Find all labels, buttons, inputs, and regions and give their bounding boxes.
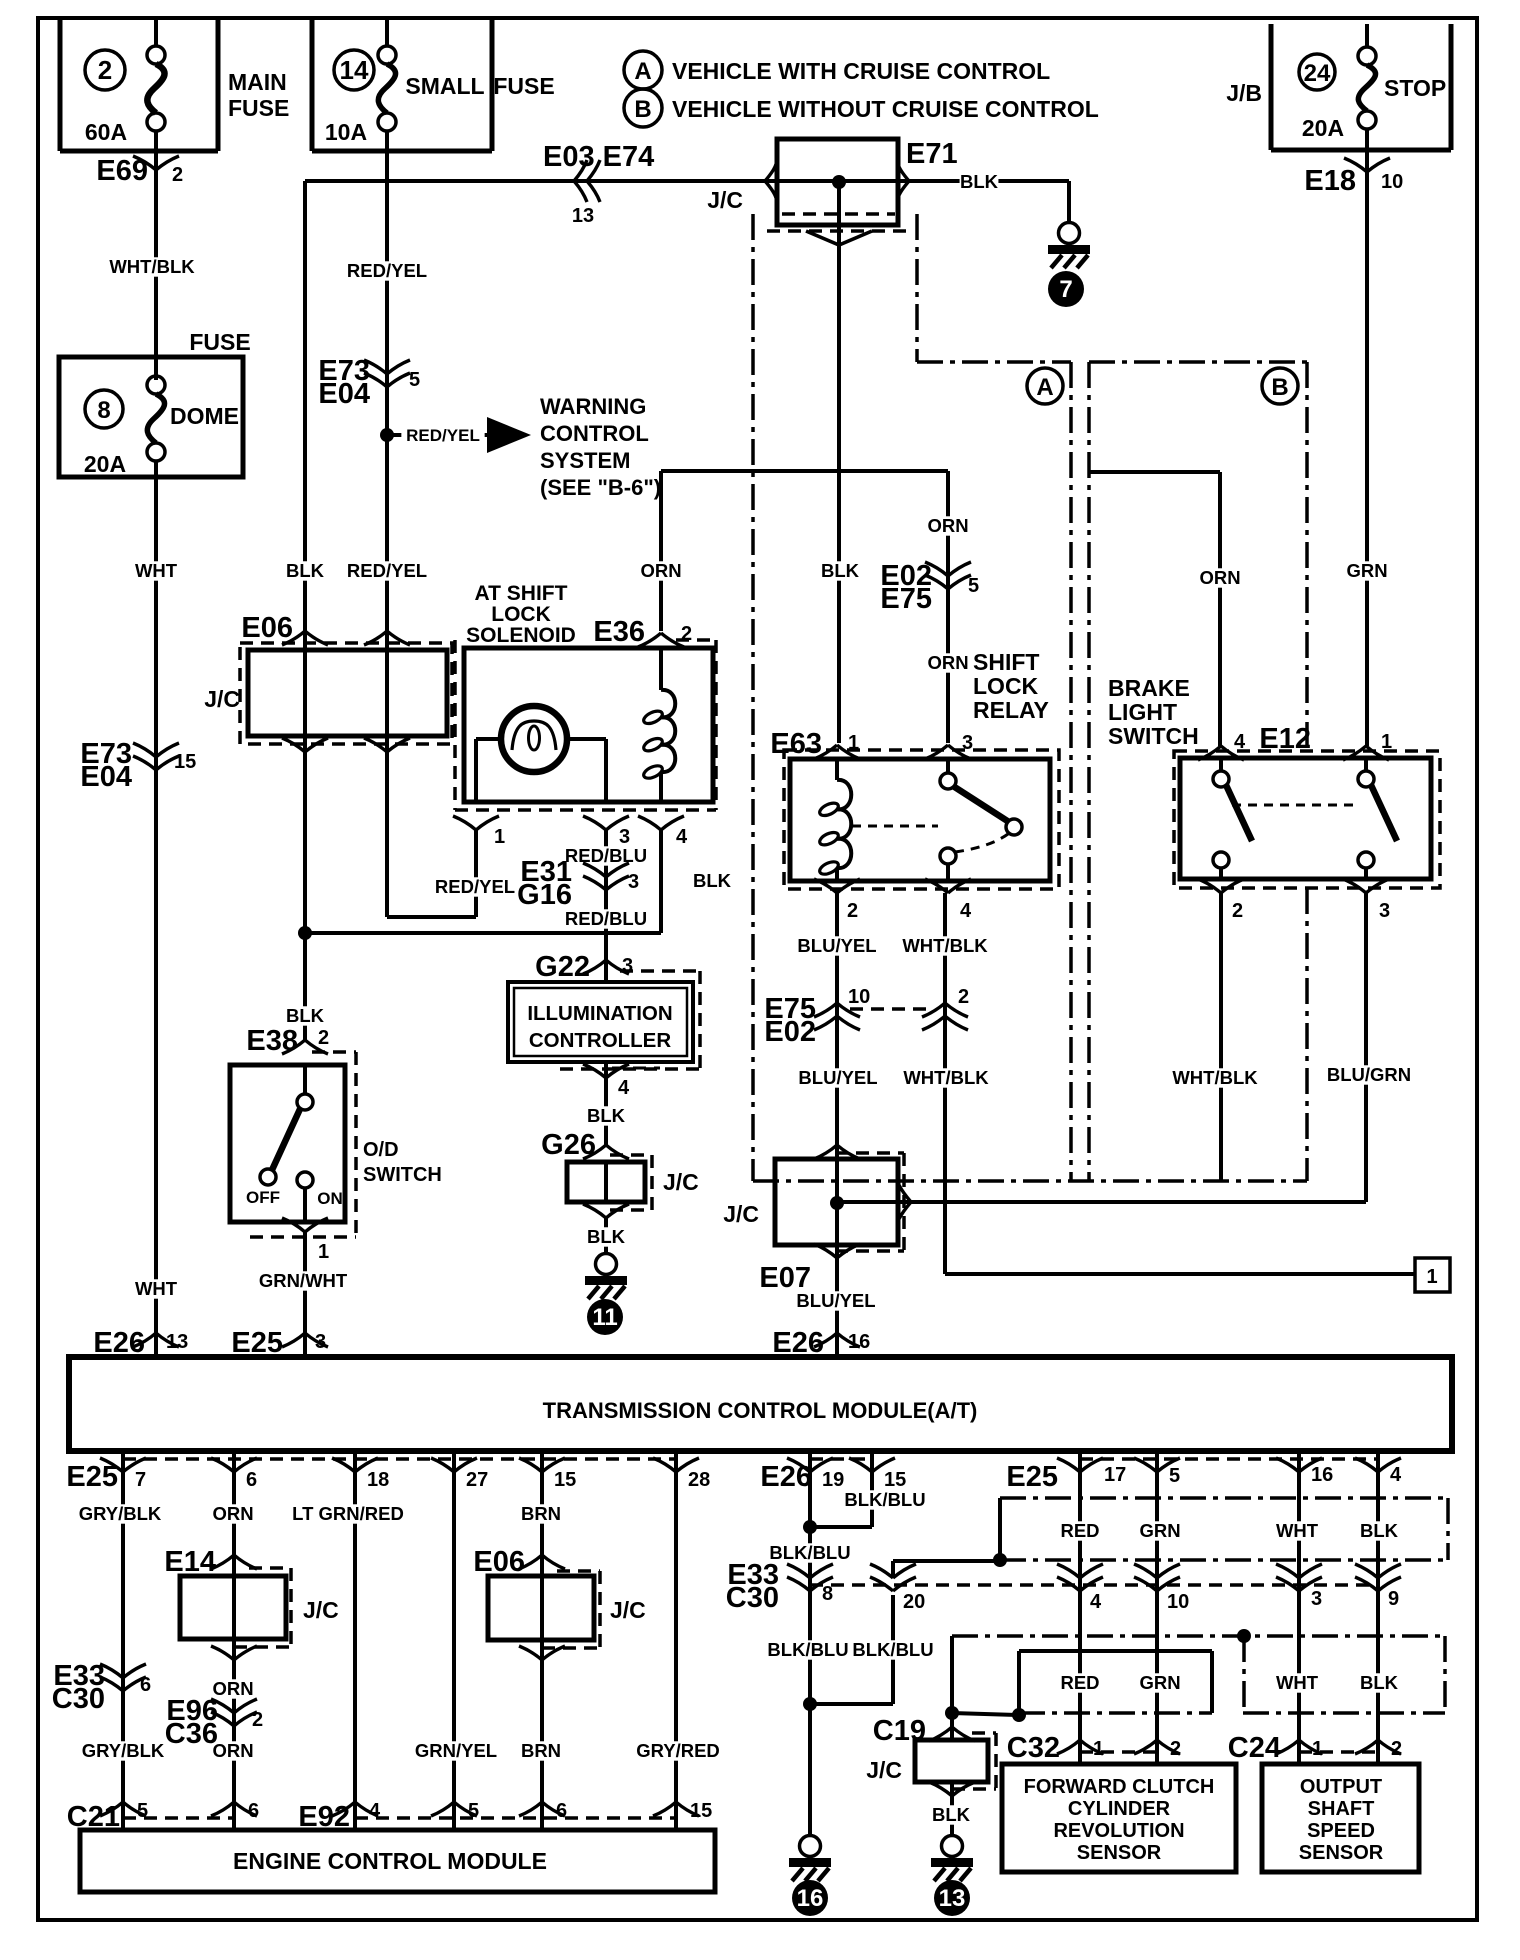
svg-text:1: 1 [1093,1738,1104,1760]
wire ORN TCM6 to ECM [212,1451,253,1830]
svg-text:2: 2 [958,986,969,1008]
svg-text:4: 4 [1090,1591,1102,1613]
connector E36 pin 4 [638,816,688,848]
shield dash-dot lower top [952,1634,1445,1638]
fuse element F24 [1358,24,1376,150]
shield dash-dot lower right [1443,1636,1447,1713]
connector E25 pin 6 [211,1458,257,1491]
svg-text:E04: E04 [318,378,370,410]
connector E33/C30 pin 10 [1134,1564,1189,1613]
connector E25 pin 4 [1355,1458,1402,1486]
shield dash-dot mid vertical [1242,1636,1246,1713]
svg-text:BLK: BLK [821,560,860,581]
ground G11 [585,1254,627,1336]
connector E36 pin 2 [593,616,692,648]
connector E02/E75 pin 5 [880,560,979,615]
brake light switch label [1108,675,1199,749]
connector E12 pin 1 [1259,723,1392,760]
connector E63 pin 3 [925,732,973,759]
svg-text:A: A [1036,374,1053,401]
connector C24 pin 1 [1276,1738,1323,1760]
terminal box 1 [1415,1258,1450,1292]
svg-text:ORN: ORN [927,652,968,673]
svg-text:E36: E36 [593,616,645,648]
connector E07 top pin [814,1145,860,1159]
junction E71 left pin [765,164,776,198]
transmission control module box [69,1357,1452,1451]
svg-text:VEHICLE WITH CRUISE CONTROL: VEHICLE WITH CRUISE CONTROL [672,58,1050,84]
svg-text:LOCK: LOCK [491,603,551,626]
connector E92 pin 4 [332,1800,381,1822]
connector E25 pin 27 [431,1458,488,1491]
connector E25 pin 17 [1057,1458,1126,1486]
svg-text:SWITCH: SWITCH [363,1164,442,1186]
svg-text:6: 6 [246,1469,257,1491]
svg-text:1: 1 [1312,1738,1323,1760]
connector E03 E74 pin 13 [543,141,654,227]
connector E96/C36 pin 2 [165,1695,263,1750]
output shaft speed sensor box [1262,1764,1419,1872]
connector E63 pin 4 [925,879,972,922]
connector E06 lower top pin [519,1555,565,1569]
svg-text:7: 7 [135,1469,146,1491]
svg-text:2: 2 [1391,1738,1402,1760]
svg-text:FUSE: FUSE [189,329,250,355]
wire GRN TCM5 to C32 [1139,1451,1180,1764]
svg-text:BLK: BLK [960,171,999,192]
svg-text:OUTPUT: OUTPUT [1300,1776,1382,1798]
svg-text:GRN: GRN [1139,1672,1180,1693]
node BLK/BLU junction dot [803,1520,817,1534]
svg-text:E14: E14 [164,1546,216,1578]
wire ORN solenoid pin2 from relay branch [640,471,681,631]
connector E31/G16 pin 3 [517,856,639,911]
svg-text:J/C: J/C [610,1597,646,1623]
node shield loop dot [1012,1708,1026,1722]
connector C19 top pin [873,1715,975,1747]
connector G26 top pin [583,1145,629,1159]
O/D switch label [363,1139,442,1186]
wire RED/YEL small fuse down [342,151,433,917]
svg-text:13: 13 [166,1331,188,1353]
svg-text:SENSOR: SENSOR [1077,1842,1162,1864]
svg-text:DOME: DOME [170,403,239,429]
wire GRN/YEL TCM27 to ECM [411,1451,502,1830]
wire RED/YEL to solenoid pin 1 [387,830,520,917]
svg-text:BLU/YEL: BLU/YEL [798,1067,877,1088]
node warning branch dot [380,428,394,442]
svg-text:1: 1 [1426,1266,1437,1288]
connector G22 pin 4 [583,1064,660,1099]
svg-text:10: 10 [1167,1591,1189,1613]
connector E33/C30 label right [726,1559,779,1614]
junction block J/C E06 lower [473,1546,645,1648]
connector E12 pin 4 [1198,731,1246,760]
connector E71 lower pin V [767,231,906,245]
svg-text:CONTROLLER: CONTROLLER [529,1029,672,1052]
svg-text:ON: ON [317,1189,343,1208]
svg-text:BRN: BRN [521,1740,561,1761]
connector E92 pin 6 [519,1800,567,1822]
svg-text:2: 2 [98,55,112,85]
svg-text:SWITCH: SWITCH [1108,723,1199,749]
svg-text:16: 16 [1311,1464,1333,1486]
relay K1 coil [818,759,851,881]
connector E25 dashed link [123,1457,676,1461]
warning system arrow [487,417,531,453]
connector E06 pin BLK bottom [282,738,328,752]
svg-text:14: 14 [340,55,369,85]
svg-text:WHT/BLK: WHT/BLK [902,935,988,956]
connector C21 pin 5 [100,1800,148,1822]
svg-text:C32: C32 [1007,1732,1060,1764]
svg-text:RED/YEL: RED/YEL [347,560,427,581]
svg-text:27: 27 [466,1469,488,1491]
svg-text:C30: C30 [726,1582,779,1614]
wire shield drain to pin 20 [893,1498,1000,1578]
svg-text:BRAKE: BRAKE [1108,675,1190,701]
svg-text:2: 2 [318,1027,329,1049]
svg-text:(SEE "B-6"): (SEE "B-6") [540,475,661,500]
wire BLK from E03/E74 junction [305,179,912,183]
svg-text:SPEED: SPEED [1307,1820,1375,1842]
wire WHT/BLK relay pin4 down [900,893,992,1274]
svg-text:TRANSMISSION CONTROL MODULE(A/: TRANSMISSION CONTROL MODULE(A/T) [543,1398,978,1423]
wire WHT TCM16 to C24 [1276,1451,1319,1764]
connector E25 pin 15 [519,1458,576,1491]
node shield drain dot [993,1553,1007,1567]
wire WHT DOME fuse to TCM [135,461,178,1357]
svg-text:ILLUMINATION: ILLUMINATION [527,1002,672,1025]
svg-text:15: 15 [174,751,196,773]
svg-text:J/C: J/C [723,1201,759,1227]
svg-text:GRY/RED: GRY/RED [636,1740,720,1761]
ground G7 [1048,223,1090,308]
section divider dash-dot left [751,214,755,1181]
shield dash-dot upper right [1446,1498,1450,1560]
connector E25 pin 28 [653,1458,710,1491]
wire BLK TCM4 to C24 [1360,1451,1399,1764]
wire BLK E03 junction down to O/D switch [286,181,325,1040]
junction block J/C E07 [723,1153,904,1294]
svg-text:ORN: ORN [927,515,968,536]
section divider dash-dot B top [1089,360,1307,364]
svg-text:GRN: GRN [1346,560,1387,581]
connector E92 pin 5 [431,1800,479,1822]
svg-text:8: 8 [822,1583,833,1605]
svg-text:WHT/BLK: WHT/BLK [1172,1067,1258,1088]
connector E25 right dashed link [1080,1457,1378,1461]
shield loop around RED GRN [1019,1651,1212,1715]
node shield lower dot [1237,1629,1251,1643]
wire C19 drain [952,1636,1019,1715]
connector E06 pin BLK top [282,631,328,645]
svg-text:SOLENOID: SOLENOID [466,624,576,647]
connector E25 pin 18 [332,1458,389,1491]
wire GRN stop fuse to pin 1 [1346,150,1387,746]
svg-text:BLK: BLK [693,870,732,891]
svg-text:BLU/GRN: BLU/GRN [1327,1064,1411,1085]
connector C32 dashed link [1080,1750,1157,1754]
svg-text:ORN: ORN [212,1678,253,1699]
svg-text:SHAFT: SHAFT [1308,1798,1375,1820]
connector E25 bottom right label [1006,1461,1058,1493]
connector E69 pin 2 [96,155,183,187]
svg-text:2: 2 [847,900,858,922]
wire BLK branch to solenoid pin 4 [305,830,661,933]
connector E38 pin 1 [282,1218,329,1263]
svg-text:LOCK: LOCK [973,673,1039,699]
solenoid label text [466,582,576,647]
connector E26 pin 15 [849,1458,906,1491]
svg-text:6: 6 [140,1674,151,1696]
svg-text:5: 5 [468,1800,479,1822]
wire RED/BLU pin3 to G22 [561,830,732,982]
svg-text:BLK: BLK [286,560,325,581]
switch box E12 [1174,751,1440,888]
connector C24 label [1228,1732,1281,1764]
svg-text:J/C: J/C [866,1757,902,1783]
svg-text:C24: C24 [1228,1732,1281,1764]
connector E33/C30 pin 8 [787,1564,833,1605]
connector E63 pin 1 [770,728,860,760]
connector C24 dashed link [1299,1750,1378,1754]
svg-text:5: 5 [409,369,420,391]
svg-text:15: 15 [690,1800,712,1822]
svg-text:17: 17 [1104,1464,1126,1486]
solenoid coil element [642,646,675,802]
shield dash-dot lower bottom right [1243,1711,1445,1715]
connector E73/E04 pin 15 [80,738,196,793]
relay box E63 [784,750,1059,889]
svg-text:11: 11 [592,1304,617,1331]
svg-text:WARNING: WARNING [540,394,646,419]
svg-text:J/C: J/C [303,1597,339,1623]
connector E38 pin 2 [246,1025,329,1057]
svg-text:BLU/YEL: BLU/YEL [796,1290,875,1311]
svg-text:4: 4 [369,1800,381,1822]
wire WHT/BLK to terminal 1 [945,1272,1415,1276]
junction block J/C C19 [866,1733,996,1789]
svg-text:B: B [634,96,651,123]
svg-text:CYLINDER: CYLINDER [1068,1798,1171,1820]
connector E12 pin 3 [1343,879,1390,922]
svg-text:WHT/BLK: WHT/BLK [109,256,195,277]
relay K1 contacts [852,759,1022,881]
svg-text:15: 15 [554,1469,576,1491]
fuse element F2 [147,20,165,151]
svg-text:E63: E63 [770,728,822,760]
svg-text:15: 15 [884,1469,906,1491]
illumination controller box [508,971,700,1069]
svg-text:BLK: BLK [932,1804,971,1825]
svg-text:G22: G22 [535,951,590,983]
wire WHT/BLK E69 to DOME fuse [107,151,198,380]
connector E63 pin 2 [814,879,860,922]
connector E06 pin RED/YEL bottom [364,738,410,752]
connector G26 bottom pin [583,1204,629,1218]
wire BLK/BLU pin20 jog [810,1595,938,1704]
svg-text:E25: E25 [1006,1461,1058,1493]
svg-text:FUSE: FUSE [493,73,554,99]
svg-text:2: 2 [1170,1738,1181,1760]
svg-text:C30: C30 [52,1683,105,1715]
svg-text:ENGINE CONTROL MODULE: ENGINE CONTROL MODULE [233,1848,547,1874]
brake switch contact left [1213,758,1252,879]
svg-text:3: 3 [1311,1588,1322,1610]
svg-text:WHT: WHT [135,560,178,581]
connector C32 pin 1 [1057,1738,1104,1760]
section divider dash-dot A right [1069,362,1073,1181]
warning control system text [540,394,661,500]
section divider dash-dot B left [1087,362,1091,1181]
connector E36 pin 1 [453,816,505,848]
forward clutch sensor box [1002,1764,1236,1872]
svg-text:4: 4 [1390,1464,1402,1486]
connector E75/E02 pins 10 2 [764,986,969,1048]
wire BLK/BLU E26-19 to ground 16 [763,1451,856,1835]
svg-text:C36: C36 [165,1718,218,1750]
brake switch contact right [1358,758,1397,879]
svg-text:4: 4 [960,900,972,922]
connector C32 label [1007,1732,1060,1764]
svg-text:20A: 20A [1302,115,1344,141]
svg-text:BLK: BLK [1360,1520,1399,1541]
section divider dash-dot A top [917,360,1071,364]
connector C21 dashed link [123,1816,234,1820]
svg-text:WHT/BLK: WHT/BLK [903,1067,989,1088]
connector E18 pin 10 [1304,158,1403,197]
svg-text:LIGHT: LIGHT [1108,699,1177,725]
svg-text:MAIN: MAIN [228,69,287,95]
connector E92 label [298,1801,350,1833]
connector E07 right pin [899,1185,911,1219]
engine control module box [80,1830,715,1892]
wire BLK illumination to G26 [587,1062,626,1145]
connector E33/C30 pin 4 [1057,1564,1103,1613]
svg-text:16: 16 [797,1885,824,1912]
svg-text:13: 13 [939,1885,966,1912]
svg-text:STOP: STOP [1384,75,1446,101]
svg-text:FORWARD CLUTCH: FORWARD CLUTCH [1024,1776,1215,1798]
section circle B [1262,368,1298,404]
wire WHT/BLK switch pin2 down [1170,893,1261,1181]
svg-text:RED/YEL: RED/YEL [406,426,480,445]
connector E33/C30 pin 6 [52,1660,151,1715]
wire E71 to ground 7 [1067,181,1071,222]
svg-text:BLK: BLK [587,1226,626,1247]
svg-text:19: 19 [822,1469,844,1491]
junction E71 right pin [898,164,909,198]
connector E26 pin 19 [787,1458,844,1491]
connector E14 top pin [211,1555,257,1569]
svg-text:BLK/BLU: BLK/BLU [844,1489,925,1510]
connector C24 pin 2 [1355,1738,1402,1760]
svg-text:2: 2 [172,164,183,186]
svg-text:WHT: WHT [1276,1520,1319,1541]
svg-text:ORN: ORN [212,1740,253,1761]
section divider dash-dot bottom [753,1179,1307,1183]
ground G16 [789,1836,831,1917]
fuse box 24 STOP 20A in J/B [1226,24,1451,150]
svg-text:16: 16 [848,1331,870,1353]
svg-text:RED/YEL: RED/YEL [435,876,515,897]
shift lock relay label [973,649,1049,723]
svg-text:2: 2 [1232,900,1243,922]
svg-text:RELAY: RELAY [973,697,1049,723]
svg-text:SMALL: SMALL [405,73,484,99]
svg-text:SYSTEM: SYSTEM [540,448,630,473]
svg-text:6: 6 [248,1800,259,1822]
connector E26 dashed link [810,1457,872,1461]
connector E25 bottom label [66,1461,118,1493]
fuse element F8 [147,376,165,461]
connector E92 pin 15 [653,1800,712,1822]
svg-text:3: 3 [628,871,639,893]
lamp wiring [476,739,606,802]
svg-text:1: 1 [318,1241,329,1263]
svg-text:GRN/WHT: GRN/WHT [259,1270,348,1291]
svg-text:20A: 20A [84,451,126,477]
wire GRY/RED TCM28 to ECM [633,1451,724,1830]
svg-text:WHT: WHT [1276,1672,1319,1693]
connector E25 pin 5 [1134,1458,1180,1487]
svg-text:1: 1 [494,826,505,848]
svg-text:E02: E02 [764,1016,816,1048]
wire ORN branch to relay pin 3 [661,471,969,743]
svg-text:E04: E04 [80,761,132,793]
wire RED TCM17 to C32 [1060,1451,1099,1764]
wire BLU/YEL E07 to TCM [791,1258,882,1357]
lamp inside solenoid [501,706,567,772]
connector E33/C30 dashed link [810,1583,1378,1587]
wire BLU/GRN switch pin3 to E07 [837,893,1414,1202]
svg-text:13: 13 [572,205,594,227]
connector E06 lower bottom pin [519,1646,565,1660]
node E07 junction dot [830,1196,844,1210]
svg-text:24: 24 [1304,60,1331,87]
connector E25 pin 16 [1276,1458,1333,1486]
solenoid box E36 [455,640,716,810]
svg-text:WHT: WHT [135,1278,178,1299]
connector E33/C30 pin 9 [1355,1564,1401,1610]
svg-text:GRN/YEL: GRN/YEL [415,1740,497,1761]
connector E33/C30 pin 20 [870,1564,925,1613]
svg-text:E03 E74: E03 E74 [543,141,654,173]
svg-text:GRY/BLK: GRY/BLK [79,1503,162,1524]
svg-text:LT GRN/RED: LT GRN/RED [292,1503,404,1524]
svg-text:BLK: BLK [587,1105,626,1126]
svg-text:E06: E06 [241,612,293,644]
node drain junction dot [803,1697,817,1711]
svg-text:BLK/BLU: BLK/BLU [852,1639,933,1660]
connector E33/C30 pin 3 [1276,1564,1322,1610]
wire LT GRN/RED TCM18 to ECM [283,1451,413,1830]
fuse box 8 DOME 20A [59,329,251,477]
svg-text:AT SHIFT: AT SHIFT [475,582,568,605]
svg-text:RED: RED [1060,1672,1099,1693]
node BLK branch dot [298,926,312,940]
O/D switch contacts [246,1065,343,1222]
node C19 junction dot [945,1706,959,1720]
connector C19 bottom pin [929,1782,975,1796]
svg-text:8: 8 [97,397,110,424]
connector E36 pin 3 [583,816,630,848]
svg-text:A: A [634,58,651,85]
svg-text:6: 6 [556,1800,567,1822]
svg-text:BRN: BRN [521,1503,561,1524]
svg-text:ORN: ORN [212,1503,253,1524]
